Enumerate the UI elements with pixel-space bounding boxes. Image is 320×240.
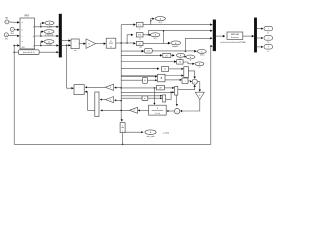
svg-text:betpha: betpha bbox=[173, 45, 180, 48]
wire branch to tag d1 bbox=[41, 23, 43, 27]
goto tag d1f bbox=[155, 17, 165, 21]
svg-text:(rad/s): (rad/s) bbox=[163, 133, 169, 135]
mux M6 bbox=[184, 67, 189, 78]
wire SB1 to mux2 bbox=[143, 24, 211, 26]
wire gain T1 to switch2 bbox=[86, 86, 105, 88]
wire MATLAB fcn to demux bbox=[243, 35, 253, 37]
goto tag d1 bbox=[45, 21, 54, 25]
goto tag wm bbox=[145, 130, 156, 135]
block RC1 bbox=[177, 60, 183, 64]
wire switch2 to mux1 branch bbox=[67, 45, 72, 88]
svg-text:o: o bbox=[33, 46, 34, 48]
svg-text:HB: HB bbox=[5, 17, 8, 19]
goto tag d3 bbox=[44, 40, 54, 44]
inport 3 bbox=[4, 33, 8, 37]
sum S2 bbox=[174, 109, 179, 114]
wire feedback right vertical bbox=[210, 46, 212, 144]
wire speed distribution vertical bbox=[120, 25, 122, 120]
wire branch to tag d3 bbox=[41, 42, 42, 46]
wire to block SB1 bbox=[121, 24, 133, 26]
wire RB7 to mux M4 bbox=[148, 97, 161, 99]
block switch1 bbox=[71, 39, 79, 49]
gain TD bbox=[195, 92, 204, 99]
svg-text:z!: z! bbox=[190, 60, 192, 62]
svg-text:HG: HG bbox=[11, 33, 14, 35]
wire to block RB1 bbox=[121, 50, 142, 52]
svg-text:Tb: Tb bbox=[267, 42, 269, 44]
goto tag beta bbox=[171, 41, 181, 45]
svg-text:d_filtered: d_filtered bbox=[45, 34, 53, 37]
svg-text:MATLAB: MATLAB bbox=[231, 33, 240, 36]
svg-text:d_q31: d_q31 bbox=[47, 27, 52, 29]
svg-text:2: 2 bbox=[12, 29, 13, 31]
wire row to mux M4 in1 bbox=[121, 95, 160, 97]
wire feedback into PAF in4 bbox=[14, 45, 17, 47]
block RB4 bbox=[143, 77, 148, 83]
block RB7 bbox=[142, 96, 148, 101]
subsystem PAF bbox=[20, 18, 35, 49]
svg-text:d_tilde: d_tilde bbox=[46, 43, 52, 46]
svg-text:3: 3 bbox=[268, 47, 269, 49]
MATLAB Function block bbox=[227, 32, 243, 39]
wire branch to block SB2 bbox=[126, 42, 128, 44]
svg-text:tetha: tetha bbox=[200, 53, 205, 56]
wire row to block RB6 bbox=[121, 87, 156, 89]
gain G1 bbox=[86, 39, 96, 49]
wire sum1 to gain TD bbox=[197, 82, 200, 90]
wire BB1 to block R8 bbox=[165, 79, 180, 81]
wire RB2 to tag w1 bbox=[171, 54, 173, 56]
block SB1 unit delay bbox=[136, 22, 143, 27]
svg-text:sqrt: sqrt bbox=[139, 45, 142, 48]
wire NR2 to scope wm bbox=[125, 131, 142, 133]
wire to switch1 in2 bbox=[62, 44, 69, 46]
svg-text:sin: sin bbox=[164, 69, 166, 71]
wire RB4 to product BB1 bbox=[148, 79, 156, 81]
outport 1 bbox=[264, 26, 273, 31]
wire RC1 to tag w3 bbox=[183, 62, 193, 64]
demux D1 bbox=[254, 18, 256, 52]
wire branch down to transfer fcn top bbox=[153, 88, 155, 103]
svg-text:b: b bbox=[199, 95, 200, 97]
wire M5 to sum2 top bbox=[176, 95, 178, 104]
wire row to block RB7 bbox=[121, 97, 142, 99]
block switch2 bbox=[74, 85, 84, 95]
svg-text:u: u bbox=[185, 81, 186, 83]
wire speed to gain T2 bbox=[116, 100, 121, 102]
integrator block bbox=[106, 38, 116, 48]
svg-text:sw: sw bbox=[74, 50, 77, 52]
wire speed to gain T1 bbox=[115, 87, 121, 89]
block RB3 bbox=[162, 67, 169, 72]
mux M1 bbox=[59, 14, 62, 57]
outport 3 bbox=[264, 45, 273, 50]
wire R8 to sum1 bbox=[188, 80, 190, 82]
sum S1 bbox=[192, 79, 197, 84]
wire demux to outport1 bbox=[257, 28, 262, 30]
wire mux2 to MATLAB fcn bbox=[216, 35, 223, 37]
wire SB2 to mux2 bbox=[148, 31, 210, 35]
inport 2 bbox=[10, 27, 14, 31]
wire row D bbox=[121, 68, 157, 70]
svg-text:J.s+b: J.s+b bbox=[155, 113, 161, 115]
goto tag d2f bbox=[151, 33, 160, 37]
wire transfer fcn to gain T3 bbox=[139, 109, 148, 111]
svg-text:uf: uf bbox=[139, 39, 141, 41]
unit delay NR2 bbox=[120, 123, 125, 133]
wire branch from mux2 row down to beta row bbox=[163, 31, 165, 44]
svg-text:d: d bbox=[33, 27, 34, 29]
goto tag w1 bbox=[176, 53, 185, 57]
svg-text:a: a bbox=[22, 22, 23, 24]
wire row B1 bbox=[121, 54, 160, 56]
svg-text:c: c bbox=[22, 36, 23, 38]
wire branch to tag d1f bbox=[151, 19, 153, 25]
wire feedback left vertical bbox=[13, 46, 15, 145]
svg-text:3: 3 bbox=[6, 35, 7, 37]
wire NR2 to bottom rail bbox=[122, 133, 124, 145]
svg-text:z2: z2 bbox=[198, 67, 200, 69]
goto tag w2 bbox=[186, 55, 195, 59]
demux NR1 bbox=[95, 92, 99, 117]
wire SB2 to tag d2f bbox=[143, 34, 150, 36]
wire inport3 to PAF in3 bbox=[8, 34, 17, 37]
gain T2 bbox=[106, 97, 114, 103]
mux M5 bbox=[175, 86, 178, 95]
wire theta branch to mux2 bbox=[186, 38, 211, 51]
wire PAF out3 to mux1 bbox=[35, 45, 57, 47]
block SB2 bbox=[136, 33, 143, 37]
wire M5 to sum1 bottom bbox=[178, 87, 195, 90]
wire row to mux M5 in2 bbox=[121, 91, 172, 93]
block RB2 bbox=[163, 53, 171, 57]
svg-text:u2: u2 bbox=[139, 43, 141, 45]
gain T1 bbox=[105, 84, 113, 90]
svg-text:PAF: PAF bbox=[24, 15, 29, 18]
svg-text:InvPark-InvClarke-SVPWM: InvPark-InvClarke-SVPWM bbox=[220, 41, 245, 44]
wire feedback from bottom to mux2 bbox=[210, 45, 213, 47]
svg-text:b: b bbox=[22, 30, 23, 32]
wire PAF out1 to mux1 bbox=[35, 26, 57, 28]
svg-text:Function: Function bbox=[231, 36, 240, 39]
svg-text:d1_f: d1_f bbox=[158, 22, 162, 24]
wire prescaler to mux1 bbox=[14, 51, 18, 53]
goto tag w3 bbox=[195, 62, 204, 66]
svg-text:Ta: Ta bbox=[267, 33, 269, 35]
wire integrator out bbox=[116, 42, 121, 44]
wire RB6 to mux M5 bbox=[164, 87, 172, 89]
block RB6 bbox=[157, 85, 165, 90]
wire mux1 to switch1 in1 bbox=[62, 40, 69, 42]
wire M4 out joining M5 in2 row bbox=[166, 92, 171, 99]
wire demux to outport3 bbox=[257, 46, 262, 48]
wire sum2 to transfer fcn bbox=[168, 110, 175, 112]
svg-text:d2_f: d2_f bbox=[154, 38, 158, 40]
svg-text:d: d bbox=[22, 41, 23, 43]
svg-text:q: q bbox=[33, 36, 34, 38]
svg-text:uKT: uKT bbox=[159, 87, 162, 89]
wire T3 to demux NR1 bbox=[101, 109, 130, 111]
goto tag d2 bbox=[44, 30, 54, 34]
block prescaler bbox=[19, 50, 39, 55]
block RB1 bbox=[145, 48, 153, 53]
svg-text:1/z: 1/z bbox=[138, 25, 141, 27]
outport 2 bbox=[264, 36, 273, 41]
product BB1 bbox=[158, 74, 166, 82]
wire NR1 to switch2 via elbow bbox=[85, 92, 93, 111]
block SB3 bbox=[136, 41, 143, 45]
svg-text:prescaler{1,1}: prescaler{1,1} bbox=[23, 51, 35, 54]
wire demux to outport2 bbox=[257, 37, 262, 39]
wire row E to mux M6 bbox=[121, 75, 181, 77]
wire tag w1 to tag w2 bbox=[185, 56, 187, 58]
svg-text:z: z bbox=[122, 131, 123, 133]
wire TD to sum2 bbox=[182, 100, 200, 111]
wire row BB1 in1 bbox=[121, 76, 155, 78]
wire to block SB3 bbox=[121, 42, 133, 44]
wire M6 to sum1 top bbox=[188, 71, 194, 77]
block R8 bbox=[182, 78, 188, 83]
svg-text:wm_rads: wm_rads bbox=[147, 135, 155, 138]
svg-text:1: 1 bbox=[268, 28, 269, 30]
mux M4 bbox=[163, 95, 166, 102]
gain T3 bbox=[130, 107, 138, 113]
wire row RB4 bbox=[121, 79, 142, 81]
wire gain G1 to integrator bbox=[96, 43, 104, 45]
wire SB3 to tag beta bbox=[143, 42, 168, 44]
goto tag theta bbox=[197, 49, 206, 53]
wire feedback bottom rail bbox=[14, 143, 211, 145]
wire PAF out2 to mux1 bbox=[35, 35, 57, 37]
svg-text:mod: mod bbox=[147, 51, 150, 53]
svg-text:2: 2 bbox=[268, 38, 269, 40]
wire inport2 to PAF in2 bbox=[14, 29, 17, 31]
svg-text:uz: uz bbox=[139, 29, 141, 31]
wire inport1 to PAF in1 bbox=[9, 21, 18, 24]
svg-text:1: 1 bbox=[6, 22, 7, 24]
wire RB3 to mux M6 bbox=[169, 68, 182, 70]
wire row C bbox=[121, 61, 174, 63]
wire switch1 to gain G1 bbox=[79, 43, 83, 45]
svg-text:HS: HS bbox=[5, 38, 8, 40]
wire gain T2 to demux NR1 bbox=[101, 99, 105, 101]
wire RB1 to tag theta bbox=[152, 50, 195, 52]
inport 1 bbox=[5, 20, 9, 24]
wire branch to tag d2 bbox=[41, 32, 42, 36]
transfer fcn block bbox=[149, 105, 167, 115]
svg-text:Tc: Tc bbox=[267, 51, 269, 53]
mux M2 bbox=[213, 20, 216, 51]
